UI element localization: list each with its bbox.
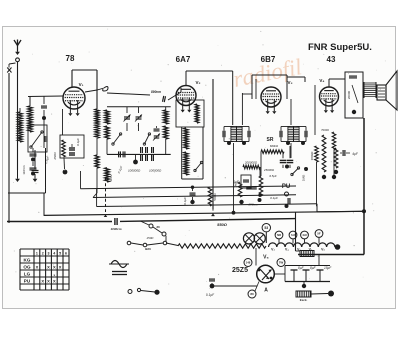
svg-text:890cm: 890cm	[151, 90, 161, 94]
svg-text:6: 6	[65, 252, 67, 256]
svg-text:OG: OG	[23, 265, 31, 270]
svg-text:600kΩ: 600kΩ	[270, 144, 279, 148]
svg-text:1000cm: 1000cm	[110, 227, 121, 231]
svg-text:110V: 110V	[109, 175, 113, 182]
svg-text:V₅: V₅	[321, 248, 325, 252]
svg-text:6A7: 6A7	[176, 55, 191, 64]
svg-text:V₃: V₃	[287, 80, 292, 85]
svg-text:7W: 7W	[279, 261, 284, 265]
svg-text:V₁: V₁	[79, 82, 84, 87]
svg-text:550Ω: 550Ω	[217, 222, 228, 227]
svg-text:5F: 5F	[317, 232, 321, 236]
svg-text:100000Ω: 100000Ω	[128, 169, 141, 173]
svg-text:4: 4	[53, 252, 55, 256]
svg-text:148: 148	[246, 261, 251, 265]
svg-text:Excit.: Excit.	[300, 298, 308, 302]
svg-text:2: 2	[42, 252, 44, 256]
svg-text:X: X	[47, 278, 50, 283]
svg-text:4L8: 4L8	[302, 233, 307, 237]
svg-text:3: 3	[48, 252, 50, 256]
svg-text:SR: SR	[267, 137, 274, 143]
svg-text:B20: B20	[145, 247, 151, 251]
svg-text:43: 43	[327, 55, 336, 64]
svg-text:15µF: 15µF	[324, 266, 332, 270]
svg-text:V₂: V₂	[195, 80, 200, 85]
svg-text:78: 78	[66, 54, 75, 63]
svg-text:110Vm: 110Vm	[22, 165, 26, 175]
svg-text:30: 30	[156, 225, 160, 229]
svg-text:X: X	[59, 264, 62, 269]
svg-text:PU: PU	[282, 184, 290, 190]
svg-text:6B7: 6B7	[261, 55, 276, 64]
svg-text:1MΩ: 1MΩ	[302, 174, 306, 181]
svg-text:V₄: V₄	[285, 248, 289, 252]
svg-text:180kΩ: 180kΩ	[310, 151, 314, 161]
svg-text:1: 1	[36, 252, 38, 256]
svg-text:100000Ω: 100000Ω	[149, 169, 162, 173]
svg-text:N8: N8	[277, 233, 281, 237]
svg-text:X: X	[53, 278, 56, 283]
svg-text:80: 80	[250, 292, 254, 296]
svg-text:70000: 70000	[321, 128, 329, 132]
svg-text:V₅: V₅	[263, 255, 269, 261]
svg-text:FNR Super5U.: FNR Super5U.	[308, 42, 372, 53]
svg-text:X: X	[47, 264, 50, 269]
svg-text:V₃: V₃	[271, 248, 275, 252]
svg-text:X: X	[41, 278, 44, 283]
svg-text:PU: PU	[24, 279, 31, 284]
svg-text:LG: LG	[24, 272, 31, 277]
svg-text:0.1µF: 0.1µF	[270, 196, 278, 200]
svg-text:5: 5	[59, 252, 61, 256]
svg-text:0.1µF: 0.1µF	[76, 138, 80, 146]
svg-text:25Z5: 25Z5	[232, 267, 248, 274]
svg-text:6-8: 6-8	[291, 233, 295, 237]
svg-text:0.1µF: 0.1µF	[206, 293, 215, 297]
svg-text:250Ω: 250Ω	[53, 152, 57, 161]
svg-text:250Ω: 250Ω	[146, 236, 155, 240]
svg-text:X: X	[36, 264, 39, 269]
svg-text:20000: 20000	[347, 90, 351, 99]
svg-text:25000Ω: 25000Ω	[263, 168, 275, 172]
svg-text:KG: KG	[24, 258, 31, 263]
svg-text:53: 53	[264, 226, 268, 230]
svg-text:0.1µF: 0.1µF	[183, 197, 187, 205]
svg-text:V₄: V₄	[319, 78, 324, 83]
svg-text:500Ω: 500Ω	[213, 193, 217, 201]
svg-text:A: A	[264, 288, 268, 294]
